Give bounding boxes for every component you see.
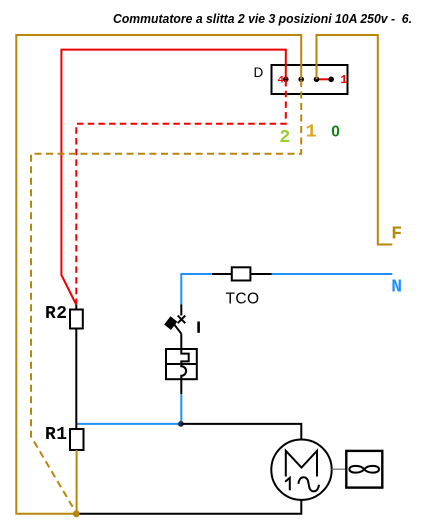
switch I contact cross [178, 316, 186, 324]
wire motor to capacitor box [332, 468, 347, 470]
wire red dashed: D pin 4 to R2 top [76, 80, 285, 305]
wire olive dashed: D pin 3 down-left to bottom node [31, 80, 301, 513]
svg-text:N: N [391, 277, 402, 297]
wire red/black pin above R2 [75, 305, 77, 310]
svg-text:1: 1 [340, 74, 347, 87]
pin dot 4 [283, 77, 289, 83]
wire olive R1 bottom to node [76, 450, 78, 514]
motor M circle [271, 440, 331, 500]
thermal protector divider [166, 363, 197, 365]
svg-text:R1: R1 [45, 425, 68, 445]
junction node dot [178, 421, 184, 427]
wire black R2 to R1 [75, 329, 77, 430]
wire blue N from terminal to TCO [272, 273, 393, 275]
svg-text:0: 0 [331, 124, 340, 141]
wire black junction to motor top [181, 424, 301, 440]
svg-text:4: 4 [278, 75, 284, 87]
pin dot 3 [298, 77, 304, 83]
svg-text:TCO: TCO [226, 291, 260, 308]
switch I lower lead [180, 334, 182, 349]
motor digit 1 [285, 478, 290, 491]
label I [197, 322, 200, 333]
svg-text:R2: R2 [45, 304, 68, 324]
motor sine wave [298, 477, 319, 491]
wire blue from TCO to switch I [181, 274, 212, 305]
red link wire between pins 3 and 4 [317, 78, 332, 80]
wire olive solid: D pin 3 to left rail and bottom to node [16, 35, 301, 514]
wire blue junction to R1 top [76, 423, 181, 425]
svg-text:F: F [391, 225, 402, 245]
wire black bottom node to motor bottom [80, 500, 302, 514]
resistor R2 [70, 310, 83, 329]
wire black protector to junction [180, 379, 182, 394]
switch I handle blob [164, 316, 177, 330]
switch I upper lead [180, 305, 182, 316]
thermal protector bimetal path [181, 349, 188, 379]
thermal protector body [166, 349, 197, 379]
capacitor/timer box [346, 451, 382, 488]
svg-text:2: 2 [279, 127, 290, 148]
node dot olive [73, 510, 80, 517]
pin dot 2 [314, 77, 320, 83]
resistor R1 [70, 429, 84, 450]
wire black through fuse TCO [212, 273, 272, 275]
infinity symbol [349, 466, 379, 473]
wire olive solid F: D pin 2 to terminal F [317, 35, 393, 245]
wire red solid: D pin 4 to R2 top [61, 50, 285, 305]
svg-text:1: 1 [305, 122, 316, 143]
fuse TCO body [232, 267, 251, 280]
svg-text:Commutatore a slitta 2 vie 3 p: Commutatore a slitta 2 vie 3 posizioni 1… [113, 11, 412, 26]
commutator D box [272, 65, 348, 94]
pin dot 1 [328, 77, 334, 83]
svg-text:D: D [254, 65, 264, 80]
switch I blade [170, 319, 182, 334]
wire blue protector to junction [180, 394, 182, 424]
motor letter M [286, 451, 317, 477]
